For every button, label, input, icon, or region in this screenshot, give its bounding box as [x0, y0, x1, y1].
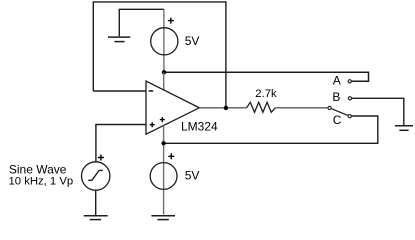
wire node C to +5V rail — [164, 116, 378, 143]
wire inverting input — [93, 90, 146, 92]
plus power label — [160, 117, 165, 122]
op-amp U1 LM324 triangle — [146, 81, 199, 134]
ground G3 — [84, 216, 108, 220]
minus input label — [149, 90, 154, 92]
wire op-amp V+ power pin down through V2 to ground — [163, 125, 165, 214]
sine glyph — [88, 170, 103, 180]
node A terminal — [348, 80, 351, 83]
wire resistor to switch pole — [275, 107, 328, 109]
svg-text:Sine Wave: Sine Wave — [9, 163, 67, 177]
plus V2 — [168, 153, 174, 159]
ground G2 — [395, 126, 413, 131]
node dot output — [224, 106, 228, 110]
svg-text:5V: 5V — [185, 34, 200, 48]
node B terminal — [348, 97, 351, 100]
wire node B to ground — [351, 98, 403, 125]
plus input label — [150, 122, 155, 127]
ground G4 — [151, 216, 175, 220]
wire -5V rail to node A hook — [164, 72, 369, 81]
node dot -5V rail — [162, 70, 166, 74]
svg-text:2.7k: 2.7k — [255, 88, 277, 100]
svg-text:C: C — [333, 113, 342, 127]
voltage source V2 5V — [150, 163, 177, 190]
switch lever to C — [331, 109, 348, 116]
node C terminal — [348, 115, 351, 118]
ground G1 — [108, 37, 130, 42]
wire non-inverting input from sine source — [96, 125, 146, 162]
svg-text:5V: 5V — [185, 169, 200, 183]
svg-text:B: B — [332, 90, 340, 104]
wire output to resistor — [199, 107, 246, 109]
plus V3 — [98, 155, 104, 161]
resistor R1 2.7k zigzag — [247, 102, 276, 112]
node dot +5V rail — [161, 141, 165, 145]
svg-text:A: A — [333, 73, 341, 87]
wire V1 vertical through source — [163, 9, 165, 72]
switch pole terminal — [328, 106, 331, 109]
svg-text:LM324: LM324 — [181, 119, 218, 133]
wire sine source to ground — [95, 190, 97, 215]
wire feedback loop: output up over to inverting input — [93, 2, 226, 108]
svg-text:10 kHz, 1 Vp: 10 kHz, 1 Vp — [9, 176, 74, 188]
plus V1 — [168, 18, 174, 24]
voltage source V1 5V — [151, 28, 178, 55]
wire top ground to V1 top — [119, 9, 164, 36]
sine source V3 — [82, 162, 110, 190]
wire op-amp V- power pin — [163, 72, 165, 90]
